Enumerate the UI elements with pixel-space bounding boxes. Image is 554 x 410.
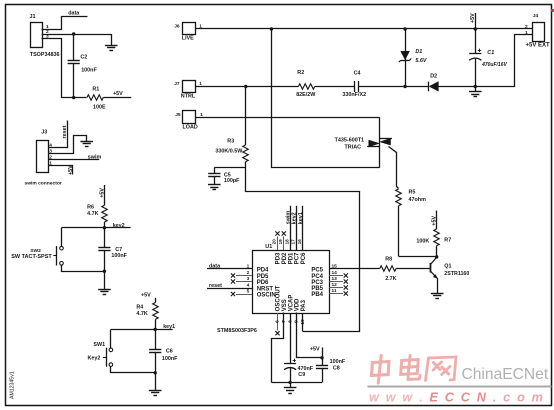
wire J3 pin1 to +5V: [49, 166, 73, 175]
svg-text:swim connector: swim connector: [25, 181, 62, 187]
svg-text:STM8S003F3P6: STM8S003F3P6: [217, 328, 257, 334]
connector J5 LOAD: [175, 111, 203, 131]
power +5V (VDD): [310, 347, 323, 358]
wire to J4 pin1: [476, 35, 533, 87]
svg-text:PC7: PC7: [295, 252, 301, 264]
svg-text:TRIAC: TRIAC: [345, 145, 362, 151]
power +5V (C1): [470, 13, 476, 29]
svg-text:330nF/X2: 330nF/X2: [342, 92, 366, 98]
diode D1 zener 5.6V: [399, 29, 427, 87]
svg-text:20: 20: [272, 239, 277, 245]
svg-text:100E: 100E: [93, 104, 106, 110]
pin 15 PC5: [311, 263, 337, 273]
power +5V (R1): [113, 91, 123, 97]
junction C2 bottom: [72, 96, 75, 99]
wire R3 to PA3: [246, 168, 360, 332]
wire J3 pin3 to ground: [49, 136, 87, 154]
junction VDD/C8: [320, 356, 323, 359]
svg-text:C2: C2: [80, 55, 87, 61]
svg-text:C4: C4: [354, 71, 361, 77]
wire to ground (C9): [290, 382, 292, 388]
wire NTRL line: [195, 86, 298, 88]
resistor R5 47ohm: [396, 189, 426, 256]
svg-text:key1: key1: [163, 324, 175, 330]
svg-text:11: 11: [332, 288, 337, 294]
transistor Q1 2STR1160: [430, 257, 469, 293]
wire J3 pin4 to reset: [49, 121, 68, 148]
capacitor C2 100nF: [68, 34, 98, 98]
connector J1 TSOP34836: [30, 14, 60, 58]
svg-text:PD6: PD6: [257, 280, 269, 286]
pin 8 VCAP: [287, 295, 294, 364]
svg-text:5.6V: 5.6V: [415, 58, 426, 64]
wire SW2 left leg: [61, 228, 63, 247]
svg-text:4.7K: 4.7K: [87, 211, 98, 217]
resistor R3 330K/0.5W: [215, 87, 248, 168]
svg-text:100nF: 100nF: [162, 356, 178, 362]
svg-text:OSCOUT: OSCOUT: [276, 285, 282, 311]
pin 2 PD5 n/c: [231, 270, 269, 280]
svg-text:J5: J5: [175, 112, 181, 118]
svg-text:470uF/16V: 470uF/16V: [481, 62, 507, 68]
svg-text:C9: C9: [298, 372, 305, 378]
wire LIVE down to TRIAC MT1: [272, 29, 380, 168]
svg-text:1: 1: [247, 263, 250, 269]
svg-text:82E/2W: 82E/2W: [296, 92, 316, 98]
svg-text:swim: swim: [88, 154, 102, 160]
capacitor C7 100nF: [98, 228, 127, 272]
svg-text:J6: J6: [174, 23, 180, 29]
svg-text:4: 4: [247, 282, 250, 288]
resistor R8 2.7K: [380, 257, 397, 282]
wire key2 node: [62, 227, 131, 229]
ground (SW2): [98, 290, 111, 295]
svg-text:10: 10: [300, 319, 306, 325]
svg-text:+5V: +5V: [432, 216, 438, 226]
node swim (U1): [285, 211, 291, 225]
svg-text:6: 6: [275, 320, 281, 323]
svg-text:J4: J4: [533, 13, 539, 19]
power +5V (R4 top): [141, 293, 156, 303]
svg-text:100K: 100K: [416, 239, 429, 245]
triac U2 T435-600T1: [335, 117, 392, 168]
wire J1 pin3 down: [42, 39, 87, 98]
resistor R1 100E: [87, 86, 131, 110]
wire bottom rail (C9/C8): [272, 382, 323, 384]
ground (J3 pin3): [80, 142, 93, 147]
node data (U1): [209, 263, 221, 269]
wire key1 node: [111, 329, 173, 331]
svg-text:19: 19: [278, 239, 283, 245]
svg-text:reset: reset: [209, 283, 222, 289]
ground (C1): [469, 92, 482, 97]
pin 6 OSCOUT n/c: [275, 285, 282, 335]
svg-text:9: 9: [294, 320, 300, 323]
pin 3 PD6 n/c: [231, 276, 269, 286]
svg-text:D1: D1: [415, 49, 422, 55]
wire J1 pin2 to ground: [42, 34, 112, 45]
svg-text:OSCIN: OSCIN: [257, 292, 276, 298]
svg-text:330K/0.5W: 330K/0.5W: [215, 149, 243, 155]
svg-text:data: data: [209, 263, 221, 269]
node reset (U1): [209, 283, 222, 289]
ground (J1 pin2): [105, 46, 118, 51]
svg-text:PB4: PB4: [311, 292, 323, 298]
svg-text:PC6: PC6: [301, 252, 307, 264]
svg-text:NTRL: NTRL: [181, 94, 196, 100]
svg-text:C8: C8: [333, 365, 340, 371]
svg-text:PD2: PD2: [282, 252, 288, 264]
switch SW1 Key2: [88, 342, 113, 367]
pin 12 PB5 n/c: [311, 282, 348, 292]
svg-text:data: data: [68, 10, 80, 16]
svg-text:C1: C1: [487, 50, 494, 56]
svg-text:Q1: Q1: [444, 264, 451, 270]
svg-text:47ohm: 47ohm: [409, 197, 427, 203]
pin 10 PA3: [300, 299, 307, 331]
wire to ground (SW1): [155, 373, 157, 391]
svg-text:J7: J7: [174, 81, 180, 87]
capacitor C5 100pF: [208, 168, 240, 185]
capacitor C1 470uF/16V: [469, 29, 507, 87]
wire LIVE rail: [195, 28, 532, 30]
svg-text:+5V: +5V: [68, 165, 74, 175]
connector J3 swim connector: [25, 130, 62, 187]
svg-text:+5V: +5V: [113, 91, 123, 97]
wire PC5 to Q1 base: [329, 268, 430, 270]
svg-text:2: 2: [525, 24, 528, 30]
junction ground rail: [288, 381, 291, 384]
svg-text:1: 1: [525, 30, 528, 36]
pin 13 PC3 n/c: [311, 276, 348, 286]
resistor R2 82E/2W: [296, 70, 354, 98]
op-amp U1 STM8S003F3P6 MCU: [217, 244, 330, 334]
pin 9 VDD: [294, 298, 323, 358]
node key1: [163, 324, 175, 330]
svg-text:+5V: +5V: [310, 347, 320, 353]
power +5V (R6 top): [99, 185, 105, 205]
pin 7 VSS: [272, 299, 289, 382]
node key2 (U1): [292, 212, 298, 224]
svg-text:100nF: 100nF: [111, 253, 127, 259]
svg-text:PC5: PC5: [311, 267, 323, 273]
junction D1 top: [403, 27, 406, 30]
node reset (J3): [62, 125, 68, 138]
svg-text:100nF: 100nF: [81, 68, 97, 74]
svg-text:R1: R1: [92, 86, 99, 92]
svg-text:18: 18: [284, 239, 289, 245]
power +5V (J3 pin1): [68, 165, 74, 175]
svg-text:470nF: 470nF: [298, 366, 314, 372]
svg-text:PA3: PA3: [301, 299, 307, 311]
pin 1 PD4 (data): [207, 263, 269, 273]
pin 5 OSCIN n/c: [231, 288, 276, 298]
svg-text:7: 7: [281, 320, 287, 323]
node key1 (U1): [298, 212, 304, 224]
wire to ground (C1): [475, 87, 477, 92]
svg-text:LOAD: LOAD: [183, 125, 198, 131]
svg-text:2STR1160: 2STR1160: [444, 271, 469, 277]
svg-text:R8: R8: [385, 257, 392, 263]
svg-text:VSS: VSS: [282, 299, 288, 311]
svg-text:R4: R4: [136, 304, 143, 310]
svg-text:13: 13: [332, 276, 338, 282]
wire TRIAC gate: [389, 147, 399, 189]
svg-text:AM12345v1: AM12345v1: [9, 371, 15, 399]
wire to ground (SW2): [104, 271, 106, 289]
connector J7 NTRL: [174, 81, 202, 100]
capacitor C9 470nF: [284, 359, 314, 383]
junction C1 top: [474, 27, 477, 30]
svg-text:+5V: +5V: [141, 293, 151, 299]
pin 18 PD1 (swim): [284, 206, 294, 264]
pin 19 PD2 n/c: [278, 231, 288, 264]
wire LOAD to TRIAC MT2: [195, 117, 379, 119]
svg-text:D2: D2: [430, 73, 437, 79]
capacitor C6 100nF: [149, 329, 178, 372]
svg-text:R6: R6: [87, 204, 94, 210]
svg-text:2.7K: 2.7K: [385, 276, 396, 282]
svg-text:J1: J1: [30, 14, 36, 20]
svg-text:R2: R2: [297, 70, 304, 76]
svg-text:PD1: PD1: [288, 252, 294, 264]
svg-text:3: 3: [247, 276, 250, 282]
junction R5/R7/Q1 collector: [435, 255, 438, 258]
svg-text:17: 17: [291, 239, 296, 245]
svg-text:w w w . E C C N . c o m: w w w . E C C N . c o m: [369, 390, 545, 404]
ground (Q1 emitter): [431, 294, 444, 299]
svg-text:14: 14: [332, 270, 338, 276]
svg-text:J3: J3: [41, 130, 47, 136]
svg-text:12: 12: [332, 282, 338, 288]
pin 20 PD3 n/c: [272, 231, 282, 264]
junction J1 pin2 / C2: [72, 32, 75, 35]
junction D1 bottom: [403, 85, 406, 88]
svg-text:PD4: PD4: [257, 267, 269, 273]
svg-text:TSOP34836: TSOP34836: [30, 52, 60, 58]
power +5V (R7 top): [432, 211, 438, 230]
diode D2: [405, 73, 475, 91]
node key2: [113, 223, 125, 229]
junction SW2/C7 bottom: [103, 270, 106, 273]
svg-text:R5: R5: [409, 189, 416, 195]
wire C5 tap: [214, 167, 246, 169]
sheet id AM12345v1: [9, 371, 15, 399]
resistor R6 4.7K: [87, 204, 107, 227]
svg-text:100nF: 100nF: [330, 359, 346, 365]
switch SW2 SW TACT-SPST: [11, 246, 63, 266]
junction SW1/C6 bottom: [154, 371, 157, 374]
junction R4/C6/key1: [154, 328, 157, 331]
node swim (J3): [88, 154, 102, 160]
svg-text:key2: key2: [113, 223, 125, 229]
svg-text:R3: R3: [227, 138, 234, 144]
wire SW1 bottom: [111, 367, 156, 373]
wire SW2 bottom: [62, 266, 105, 272]
junction LIVE/TRIAC branch: [270, 27, 273, 30]
connector J4 +5V EXT: [525, 13, 550, 49]
svg-text:SW TACT-SPST: SW TACT-SPST: [11, 254, 52, 260]
svg-text:16: 16: [297, 239, 302, 245]
pin 14 PC4 n/c: [311, 270, 348, 280]
svg-text:5: 5: [247, 288, 250, 294]
svg-text:PD3: PD3: [276, 252, 282, 264]
ground (C5): [208, 185, 221, 190]
svg-text:VDD: VDD: [295, 298, 301, 311]
svg-text:reset: reset: [62, 125, 68, 138]
ground (SW1): [149, 391, 162, 396]
svg-text:+5V: +5V: [470, 13, 476, 23]
pin 4 NRST (reset): [207, 282, 273, 292]
connector J6 LIVE: [174, 23, 202, 42]
svg-text:4.7K: 4.7K: [136, 311, 147, 317]
pin 11 PB4 n/c: [311, 288, 348, 298]
pin 16 PC6 (key1): [297, 206, 307, 264]
svg-text:100pF: 100pF: [224, 178, 240, 184]
svg-text:VCAP: VCAP: [288, 295, 294, 312]
svg-text:8: 8: [287, 320, 293, 323]
resistor R7 100K: [416, 229, 451, 257]
pin 17 PC7 (key2): [291, 206, 301, 264]
svg-text:LIVE: LIVE: [182, 36, 194, 42]
junction R6/C7/key2: [103, 226, 106, 229]
svg-text:key1: key1: [298, 212, 304, 224]
svg-text:C6: C6: [166, 349, 173, 355]
svg-text:Key2: Key2: [88, 355, 101, 361]
svg-text:+5V EXT: +5V EXT: [526, 43, 551, 49]
capacitor C4 330nF/X2: [342, 71, 405, 98]
junction NTRL/R3: [244, 85, 247, 88]
svg-text:SW1: SW1: [93, 342, 105, 348]
node data (J1): [68, 10, 80, 16]
svg-text:R7: R7: [444, 238, 451, 244]
svg-text:T435-600T1: T435-600T1: [335, 137, 364, 143]
capacitor C8 100nF: [316, 358, 346, 383]
wire R5 to Q1 collector: [399, 256, 437, 258]
svg-text:C7: C7: [115, 247, 122, 253]
ground (C9): [284, 388, 297, 394]
svg-text:ChinaECNet: ChinaECNet: [462, 366, 549, 383]
svg-text:swim: swim: [285, 211, 291, 225]
junction C1 bottom: [474, 85, 477, 88]
svg-text:key2: key2: [292, 212, 298, 224]
wire SW1 left leg: [110, 329, 112, 348]
wire J1 pin1 to data node: [42, 17, 88, 30]
svg-text:2: 2: [247, 270, 250, 276]
wire J3 pin2 swim: [48, 159, 99, 161]
resistor R4 4.7K: [136, 303, 158, 330]
